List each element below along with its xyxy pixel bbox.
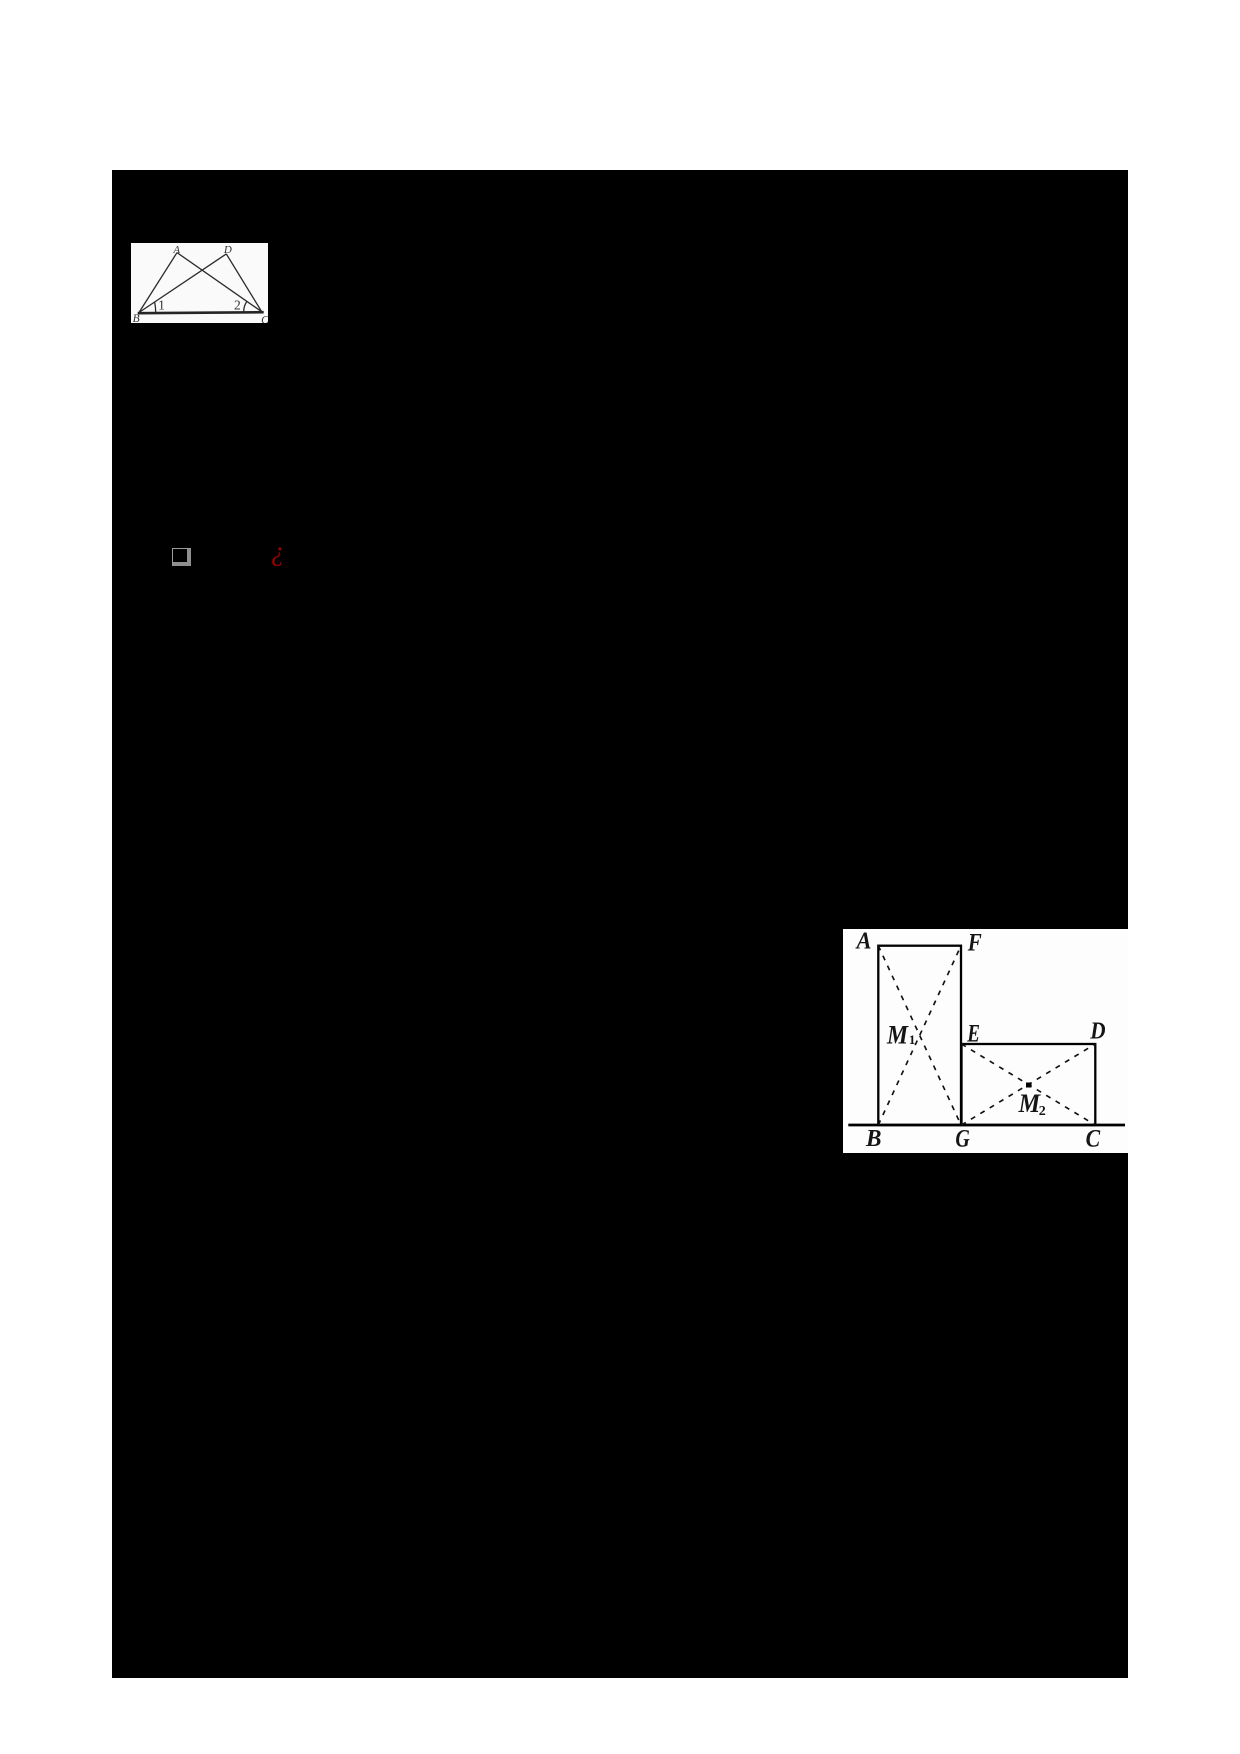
- figure 2: rectangles ABGF and EGCD: [843, 929, 1128, 1153]
- svg-text:M: M: [1018, 1089, 1041, 1118]
- svg-text:A: A: [172, 244, 180, 256]
- node M2 dot: [1026, 1083, 1032, 1088]
- wire A to C: [177, 253, 262, 312]
- svg-text:2: 2: [1039, 1104, 1046, 1119]
- red inverted question mark: [271, 536, 291, 566]
- wire B to D: [139, 254, 226, 313]
- svg-text:M: M: [886, 1021, 909, 1050]
- svg-text:A: A: [855, 929, 872, 955]
- checkbox placeholder: [172, 548, 191, 566]
- svg-text:B: B: [865, 1126, 881, 1152]
- angle 1 mark: [155, 302, 156, 313]
- wire diagonal G-D dashed: [962, 1044, 1096, 1125]
- wire ground line: [848, 1124, 1125, 1127]
- angle 2 mark: [244, 301, 247, 311]
- svg-text:C: C: [261, 315, 268, 324]
- svg-text:1: 1: [909, 1032, 916, 1047]
- wire D to C: [226, 254, 261, 312]
- svg-text:D: D: [1089, 1019, 1105, 1045]
- wire diagonal E-C dashed: [962, 1044, 1096, 1125]
- figure 1: triangles ABC / DBC: [131, 243, 268, 323]
- svg-text:F: F: [967, 930, 982, 957]
- wire diagonal A-G dashed: [878, 946, 961, 1125]
- svg-text:2: 2: [234, 298, 241, 313]
- rectangle EGCD: [962, 1044, 1096, 1125]
- wire base BC: [138, 312, 264, 313]
- svg-text:G: G: [955, 1126, 969, 1153]
- wire diagonal B-F dashed: [878, 946, 961, 1125]
- svg-text:D: D: [223, 244, 232, 256]
- wire B to A: [139, 253, 177, 313]
- svg-text:E: E: [967, 1021, 980, 1048]
- svg-text:B: B: [133, 313, 140, 323]
- black content block: [112, 170, 1128, 1678]
- svg-text:C: C: [1086, 1126, 1101, 1153]
- svg-text:1: 1: [158, 298, 165, 313]
- rectangle ABGF: [878, 946, 961, 1125]
